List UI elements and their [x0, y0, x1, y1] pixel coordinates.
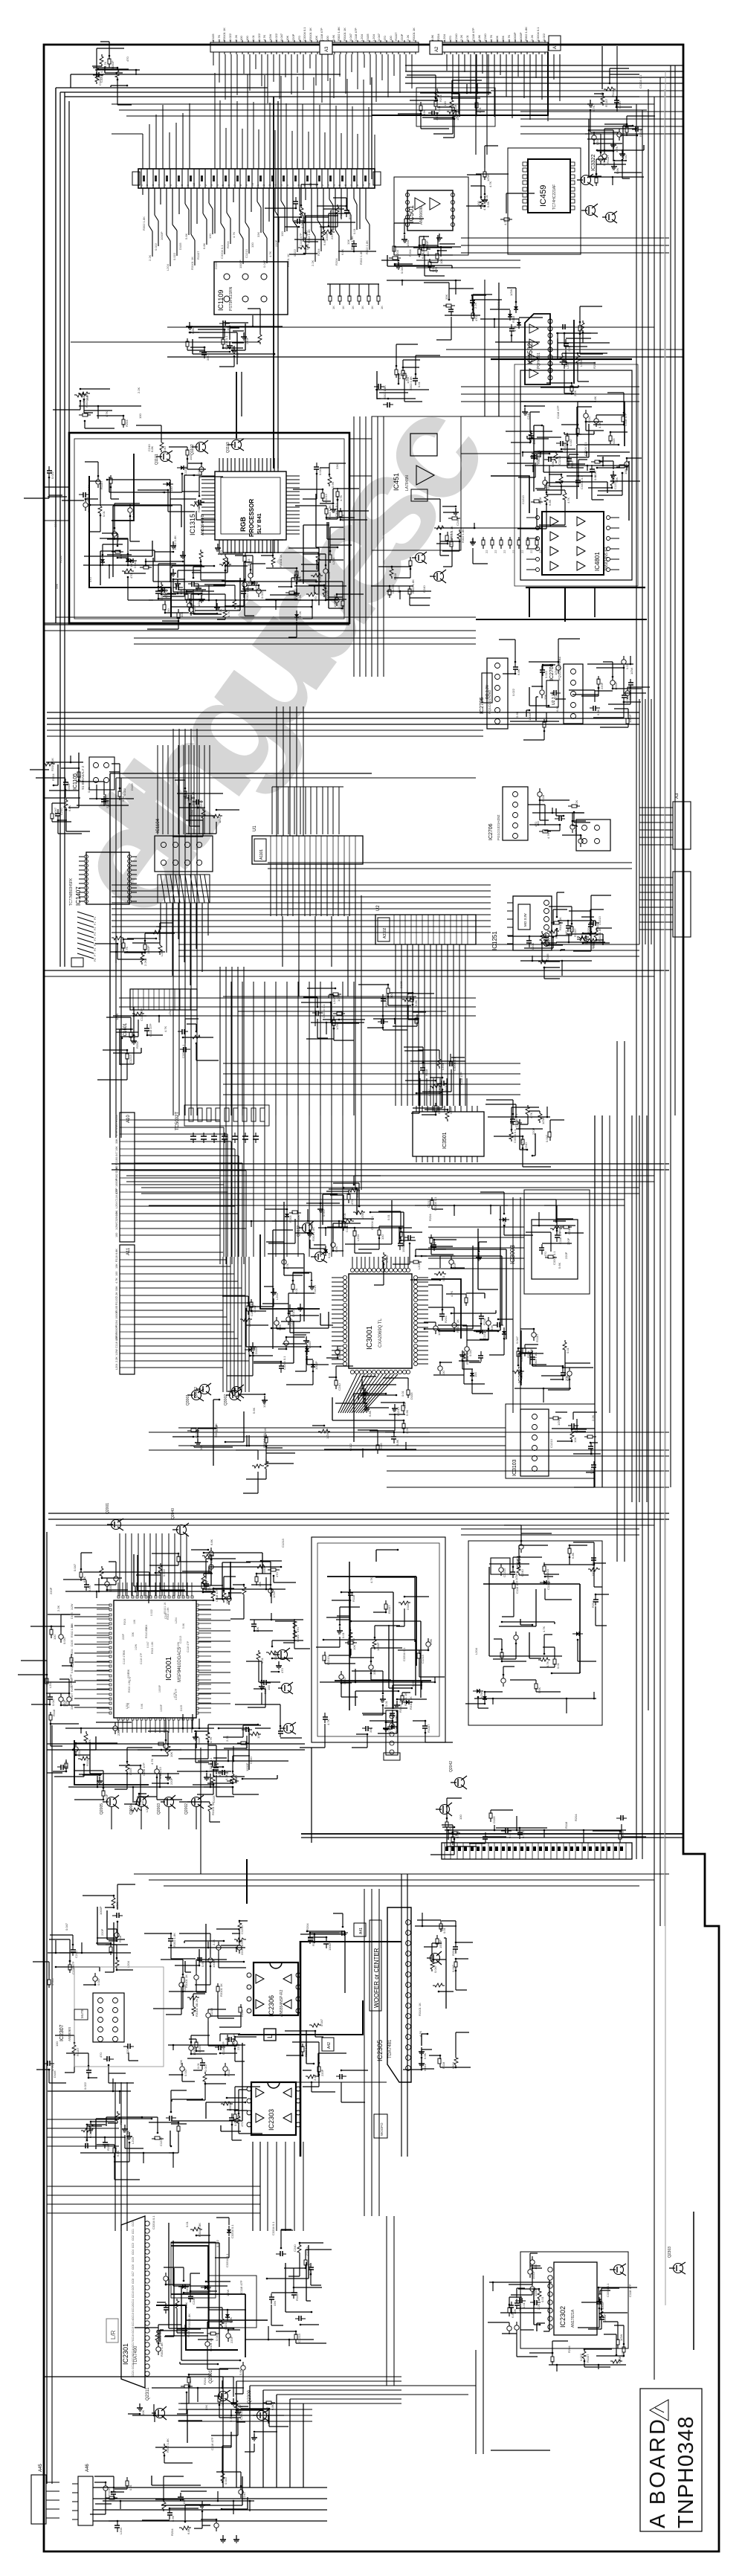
- svg-text:100: 100: [534, 2264, 538, 2270]
- svg-text:IC451: IC451: [393, 473, 400, 491]
- svg-text:R204: R204: [115, 1320, 118, 1327]
- svg-text:4.7K: 4.7K: [503, 219, 507, 225]
- svg-text:TDA7481: TDA7481: [388, 2039, 393, 2058]
- section box audio power: [520, 370, 632, 580]
- svg-text:C118 47P: C118 47P: [215, 1588, 219, 1602]
- svg-text:10K: 10K: [564, 1376, 568, 1381]
- connector J1 top strip: [210, 42, 419, 52]
- svg-text:1K: 1K: [361, 306, 364, 309]
- svg-text:1/2W: 1/2W: [115, 1349, 118, 1356]
- svg-text:R204: R204: [574, 1814, 578, 1821]
- svg-text:P4: P4: [94, 938, 97, 941]
- top center DIP IC3501: [413, 1112, 484, 1156]
- section box IC501: [394, 177, 468, 255]
- svg-text:L204: L204: [356, 1234, 360, 1241]
- svg-text:33K: 33K: [445, 294, 448, 300]
- svg-text:C240: C240: [526, 412, 530, 419]
- svg-text:L204: L204: [119, 2527, 123, 2534]
- svg-text:R204: R204: [125, 419, 129, 427]
- inner border step box: [693, 2212, 694, 2350]
- svg-text:4.7K: 4.7K: [150, 1758, 154, 1765]
- thick traces center box band5: [327, 1577, 431, 1681]
- svg-text:D105: D105: [366, 33, 370, 41]
- center horizontals band3: [119, 998, 476, 1016]
- svg-text:22: 22: [485, 550, 488, 553]
- vertical bus center page: [200, 1748, 201, 1874]
- svg-text:A BOARD: A BOARD: [646, 2417, 670, 2528]
- svg-text:C240: C240: [249, 1756, 253, 1764]
- svg-text:C118 47P: C118 47P: [222, 2041, 225, 2055]
- svg-text:CC15: CC15: [132, 2327, 135, 2334]
- svg-text:RGB: RGB: [239, 517, 247, 532]
- svg-text:6.8K: 6.8K: [571, 1552, 575, 1559]
- cluster around IC2001: [101, 1577, 103, 1580]
- svg-text:6.8K: 6.8K: [430, 34, 434, 41]
- svg-text:470: 470: [554, 695, 558, 701]
- svg-text:1/2W: 1/2W: [177, 1641, 180, 1648]
- IC459 multivibrator: [528, 159, 570, 213]
- svg-text:Q2042: Q2042: [449, 1761, 454, 1772]
- svg-text:R1107: R1107: [394, 32, 398, 41]
- svg-text:33K: 33K: [115, 1286, 118, 1291]
- svg-text:470: 470: [543, 1252, 547, 1257]
- svg-text:5.6K: 5.6K: [141, 1703, 143, 1709]
- svg-text:P3: P3: [94, 933, 97, 936]
- svg-text:C240: C240: [524, 1142, 528, 1150]
- svg-text:470: 470: [218, 1771, 222, 1777]
- svg-text:4.7K: 4.7K: [370, 1577, 373, 1583]
- svg-text:6.8K: 6.8K: [421, 252, 425, 259]
- svg-text:R204: R204: [51, 773, 55, 781]
- horizontal band5 upper: [47, 1744, 305, 1750]
- bold net IC2305: [238, 2000, 363, 2035]
- svg-text:R3101 1K: R3101 1K: [412, 28, 416, 41]
- svg-text:Q3002: Q3002: [224, 1394, 228, 1405]
- IC501 pre amp: [407, 190, 453, 231]
- svg-text:0.01: 0.01: [102, 510, 106, 517]
- svg-text:220P: 220P: [117, 1728, 120, 1736]
- svg-text:5.6K: 5.6K: [239, 2369, 242, 2375]
- svg-text:C3204 0.1: C3204 0.1: [115, 1210, 118, 1223]
- svg-text:4.7K: 4.7K: [115, 1130, 118, 1136]
- svg-text:4.7K: 4.7K: [209, 1736, 213, 1743]
- wires left of A44: [143, 103, 190, 169]
- svg-text:A3102: A3102: [383, 927, 387, 938]
- svg-text:R204: R204: [71, 1649, 74, 1655]
- wire comb below A1101: [271, 864, 355, 916]
- svg-text:R302 1.8K: R302 1.8K: [71, 1624, 74, 1638]
- transistors Q460 Q461: [581, 176, 591, 185]
- IC2303 audio amp: [251, 2082, 296, 2135]
- svg-text:IC1109: IC1109: [217, 290, 225, 311]
- svg-text:1/2W: 1/2W: [268, 33, 272, 41]
- svg-text:0.047: 0.047: [349, 33, 352, 41]
- band5 buses: [48, 1513, 669, 1519]
- svg-text:AN17821A: AN17821A: [571, 2309, 575, 2328]
- svg-text:R302 1.8K: R302 1.8K: [409, 376, 413, 390]
- svg-text:CC9: CC9: [132, 2285, 135, 2290]
- svg-text:MSP3410DGAC5: MSP3410DGAC5: [178, 1646, 182, 1682]
- MUTE box IC2307: [74, 2009, 88, 2020]
- svg-text:L204: L204: [474, 1647, 478, 1655]
- svg-text:IC2302: IC2302: [559, 2306, 567, 2328]
- transistors Q3808 Q3809: [416, 553, 425, 563]
- svg-text:6.8K: 6.8K: [429, 1638, 433, 1645]
- svg-text:D105: D105: [212, 1795, 216, 1803]
- svg-text:0.01: 0.01: [478, 106, 482, 113]
- transistor Q2310: [430, 1954, 440, 1963]
- svg-text:TC74HC221AF: TC74HC221AF: [552, 184, 557, 210]
- center bottom vertical bus: [220, 982, 354, 1115]
- svg-text:0.01: 0.01: [352, 228, 356, 234]
- cluster: [416, 88, 495, 126]
- svg-text:C240: C240: [483, 33, 487, 41]
- section frame left band6: [74, 1967, 164, 2067]
- svg-text:IC3103: IC3103: [512, 1459, 517, 1476]
- IC4801 audio amp: [542, 512, 604, 575]
- svg-text:33K: 33K: [55, 584, 59, 589]
- svg-text:R204: R204: [123, 1619, 126, 1625]
- svg-text:2.2K: 2.2K: [298, 611, 302, 617]
- svg-text:33K: 33K: [86, 396, 89, 401]
- svg-text:IC1601: IC1601: [123, 1023, 128, 1037]
- svg-text:33K: 33K: [206, 355, 210, 361]
- svg-text:IC501: IC501: [407, 205, 415, 223]
- svg-text:100: 100: [115, 1233, 118, 1237]
- svg-text:C3204 0.1: C3204 0.1: [322, 1004, 326, 1018]
- svg-text:R118: R118: [393, 573, 397, 580]
- svg-text:C1213: C1213: [129, 1054, 132, 1063]
- svg-text:P2: P2: [94, 927, 97, 930]
- svg-text:C3204 0.1: C3204 0.1: [449, 531, 453, 545]
- svg-text:R204: R204: [436, 33, 440, 41]
- svg-text:100: 100: [55, 2041, 59, 2047]
- svg-text:10K: 10K: [133, 1619, 136, 1624]
- svg-text:D105: D105: [492, 1816, 496, 1823]
- svg-text:R1107: R1107: [115, 1114, 118, 1122]
- svg-text:2.2K: 2.2K: [57, 1605, 60, 1611]
- svg-text:C240: C240: [147, 444, 151, 451]
- svg-text:4.7K: 4.7K: [227, 611, 230, 617]
- cap row below resistor array: [193, 1133, 256, 1143]
- svg-text:0.01: 0.01: [200, 589, 204, 596]
- svg-text:LA7845N: LA7845N: [405, 475, 410, 491]
- svg-text:MUTE: MUTE: [80, 2009, 84, 2018]
- svg-text:2.2K: 2.2K: [573, 390, 577, 396]
- svg-text:100: 100: [477, 201, 480, 206]
- svg-text:R204: R204: [317, 248, 320, 256]
- svg-text:1/2W: 1/2W: [71, 1603, 74, 1610]
- svg-text:R3101 1K: R3101 1K: [384, 994, 388, 1007]
- svg-text:L204: L204: [332, 996, 336, 1004]
- wire: [71, 74, 341, 88]
- right margin vertical buses: [636, 65, 675, 2380]
- bold trace band4 IC3001: [260, 1234, 461, 1339]
- svg-text:0.047: 0.047: [146, 1641, 149, 1648]
- svg-text:C3204 0.1: C3204 0.1: [606, 2283, 610, 2297]
- svg-text:C3204 0.1: C3204 0.1: [402, 1647, 406, 1661]
- svg-text:C118 47P: C118 47P: [187, 1640, 190, 1652]
- comb above IC1104: [158, 745, 210, 834]
- svg-text:100: 100: [326, 36, 329, 41]
- svg-text:CC6: CC6: [132, 2264, 135, 2270]
- svg-text:1000P: 1000P: [328, 1942, 332, 1951]
- svg-text:1/2W: 1/2W: [509, 289, 513, 296]
- svg-text:C1213: C1213: [245, 248, 248, 258]
- svg-text:1000P: 1000P: [115, 1311, 118, 1319]
- bold net at IC4502: [491, 358, 632, 360]
- bold feed from A1 connector: [372, 52, 548, 115]
- svg-text:0.047: 0.047: [97, 1977, 100, 1986]
- long horizontals band4 top: [149, 1200, 625, 1205]
- svg-text:C240: C240: [338, 1383, 341, 1391]
- svg-text:1000P: 1000P: [528, 712, 532, 721]
- svg-text:470: 470: [350, 1200, 354, 1205]
- connector A10 left edge: [120, 1112, 135, 1242]
- svg-text:C1213: C1213: [281, 1538, 285, 1548]
- svg-text:0.047: 0.047: [71, 1658, 74, 1664]
- svg-text:P1: P1: [94, 922, 97, 925]
- svg-text:D105: D105: [130, 783, 134, 790]
- svg-text:0.047: 0.047: [515, 1336, 519, 1344]
- woofer output box: [374, 2114, 387, 2138]
- svg-text:100: 100: [564, 930, 568, 936]
- connector A41 box: [354, 1923, 366, 1936]
- svg-text:R204: R204: [59, 556, 62, 563]
- svg-text:R204: R204: [567, 2345, 571, 2353]
- svg-text:PROCESSOR: PROCESSOR: [248, 499, 255, 537]
- svg-text:4.7K: 4.7K: [268, 251, 272, 257]
- svg-text:33K: 33K: [71, 1704, 74, 1710]
- svg-text:10K: 10K: [495, 36, 499, 41]
- svg-text:1/2W: 1/2W: [337, 994, 341, 1002]
- svg-text:C118 47P: C118 47P: [556, 405, 560, 419]
- svg-text:TNPH0348: TNPH0348: [674, 2416, 698, 2528]
- svg-text:22: 22: [503, 550, 506, 553]
- svg-text:0.022: 0.022: [293, 248, 297, 257]
- transistor Q2309: [257, 2411, 267, 2421]
- IC2001 right pin stubs: [199, 1610, 230, 1704]
- svg-text:0.047: 0.047: [545, 1134, 549, 1142]
- svg-text:CC7: CC7: [132, 2271, 135, 2276]
- svg-text:0.047: 0.047: [73, 1563, 77, 1571]
- svg-text:C1213: C1213: [421, 1654, 425, 1664]
- RGB cluster parts: [100, 559, 105, 562]
- svg-text:R204: R204: [439, 94, 442, 102]
- svg-text:2.2K: 2.2K: [115, 1292, 118, 1298]
- IC4502 buffer amp: [525, 314, 550, 384]
- svg-text:L204: L204: [417, 1262, 421, 1269]
- svg-text:1000P: 1000P: [158, 1684, 161, 1693]
- svg-text:0.047: 0.047: [115, 1122, 118, 1130]
- svg-text:470: 470: [448, 36, 452, 41]
- svg-text:Q3132: Q3132: [297, 1226, 301, 1237]
- svg-text:0.01: 0.01: [442, 1275, 445, 1281]
- wires to edge connectors: [639, 808, 668, 930]
- svg-text:0.01: 0.01: [196, 2062, 200, 2069]
- svg-text:1000P: 1000P: [314, 1361, 318, 1370]
- svg-text:100: 100: [443, 101, 447, 106]
- transistor Q2311: [155, 2409, 165, 2418]
- svg-text:R302 1.8K: R302 1.8K: [328, 505, 332, 519]
- svg-text:IC3001: IC3001: [366, 1325, 374, 1350]
- svg-text:33K: 33K: [422, 110, 426, 115]
- svg-text:R3101 1K: R3101 1K: [279, 554, 283, 567]
- svg-text:4.7K: 4.7K: [51, 2064, 54, 2071]
- svg-text:4.7K: 4.7K: [119, 938, 123, 945]
- transistor Q2308: [606, 213, 616, 222]
- svg-text:5.6K: 5.6K: [184, 233, 188, 239]
- svg-text:Q1102: Q1102: [190, 444, 195, 455]
- svg-text:470: 470: [129, 573, 133, 579]
- svg-text:R3101 1K: R3101 1K: [145, 1626, 148, 1638]
- gray bus right margin: [664, 89, 665, 1926]
- svg-text:R1107: R1107: [535, 1333, 539, 1342]
- cluster small parts top-left: [108, 59, 111, 64]
- svg-text:R1107: R1107: [604, 98, 608, 107]
- svg-text:2.2K: 2.2K: [137, 387, 141, 393]
- svg-text:A42: A42: [327, 2042, 332, 2049]
- svg-text:0.022: 0.022: [257, 33, 261, 41]
- svg-text:A45: A45: [39, 2464, 43, 2472]
- transistors Q3001 Q3002b: [192, 1391, 201, 1400]
- svg-text:D105: D105: [214, 262, 218, 269]
- bottom connector bar band5: [442, 1843, 632, 1859]
- svg-text:0.01: 0.01: [417, 381, 421, 387]
- svg-text:CC4: CC4: [132, 2250, 135, 2255]
- svg-text:R302 1.8K: R302 1.8K: [172, 1933, 176, 1947]
- comb above IC2001: [120, 1533, 187, 1596]
- svg-text:100: 100: [251, 242, 254, 248]
- svg-text:5.6K: 5.6K: [335, 1246, 338, 1252]
- svg-text:10K: 10K: [439, 259, 443, 264]
- svg-text:4.7K: 4.7K: [339, 495, 343, 501]
- svg-text:C1213: C1213: [503, 1568, 506, 1577]
- svg-text:R302 1.8K: R302 1.8K: [142, 216, 146, 231]
- svg-text:100: 100: [239, 36, 243, 41]
- svg-text:0.022: 0.022: [178, 1666, 181, 1672]
- svg-text:L204: L204: [442, 33, 446, 41]
- svg-text:C3204 0.1: C3204 0.1: [230, 2224, 234, 2238]
- svg-text:CC16: CC16: [132, 2334, 135, 2341]
- svg-text:4.7K: 4.7K: [262, 34, 266, 41]
- svg-text:100: 100: [115, 1272, 118, 1276]
- svg-text:470: 470: [383, 36, 387, 41]
- svg-text:5.6K: 5.6K: [405, 1409, 409, 1416]
- svg-text:IC2307: IC2307: [59, 2024, 65, 2041]
- svg-text:470: 470: [275, 1572, 279, 1577]
- svg-text:0.022: 0.022: [544, 670, 548, 678]
- svg-text:100: 100: [53, 1635, 57, 1640]
- svg-text:1/2W: 1/2W: [480, 1691, 483, 1698]
- svg-text:100: 100: [208, 234, 212, 239]
- svg-text:R204: R204: [226, 241, 230, 248]
- svg-text:R3101 1K: R3101 1K: [222, 28, 226, 41]
- svg-text:C240: C240: [133, 561, 137, 568]
- svg-text:220P: 220P: [320, 2069, 324, 2076]
- svg-text:MO 3.3V: MO 3.3V: [523, 913, 527, 927]
- svg-text:D105: D105: [53, 2070, 57, 2078]
- svg-text:R204: R204: [135, 1041, 139, 1049]
- svg-text:10K: 10K: [256, 1627, 259, 1632]
- svg-text:D105: D105: [178, 242, 182, 250]
- svg-text:4.7K: 4.7K: [300, 222, 304, 228]
- svg-text:10K: 10K: [352, 1645, 356, 1650]
- svg-text:2.2K: 2.2K: [212, 1939, 216, 1945]
- svg-text:R302 1.8K: R302 1.8K: [524, 27, 528, 41]
- svg-text:R3101 1K: R3101 1K: [195, 2003, 199, 2017]
- svg-text:A1: A1: [553, 43, 558, 49]
- section rects band7 center: [171, 2242, 216, 2298]
- svg-text:L204: L204: [441, 1063, 445, 1070]
- svg-text:2.2K: 2.2K: [148, 254, 152, 261]
- svg-text:10K: 10K: [314, 36, 318, 41]
- svg-text:220P: 220P: [105, 1794, 109, 1801]
- transistor Q2301: [219, 2392, 228, 2401]
- svg-text:2.2K: 2.2K: [143, 959, 147, 966]
- cluster: [446, 304, 451, 307]
- svg-text:1000P: 1000P: [160, 1704, 163, 1712]
- svg-text:33K: 33K: [335, 464, 339, 469]
- svg-text:2.2K: 2.2K: [236, 604, 240, 611]
- svg-text:100: 100: [71, 1678, 74, 1683]
- svg-text:1000P: 1000P: [439, 1939, 442, 1948]
- svg-text:0.022: 0.022: [512, 688, 515, 696]
- band4 vertical buses right: [595, 1115, 602, 1487]
- bottom left wires: [239, 2490, 243, 2494]
- section box IC459: [508, 148, 581, 254]
- svg-text:R1107: R1107: [71, 1693, 74, 1701]
- svg-text:C1213: C1213: [549, 1438, 553, 1448]
- connector A45 bottom left: [31, 2475, 46, 2524]
- svg-text:C118 47P: C118 47P: [546, 1577, 550, 1590]
- svg-text:R3101 1K: R3101 1K: [219, 1983, 223, 1997]
- svg-text:0.047: 0.047: [569, 438, 572, 446]
- svg-text:0.022: 0.022: [260, 590, 264, 599]
- frame right band6: [364, 1889, 379, 2216]
- svg-text:10K: 10K: [285, 36, 289, 41]
- svg-text:0.01: 0.01: [387, 1214, 390, 1220]
- svg-text:P8: P8: [94, 959, 97, 962]
- svg-text:5.6K: 5.6K: [486, 201, 490, 207]
- svg-text:2.2K: 2.2K: [405, 1427, 409, 1434]
- svg-text:4.7K: 4.7K: [115, 1278, 118, 1284]
- svg-text:0.047: 0.047: [184, 2068, 187, 2076]
- vertical bundle center band3-4: [254, 982, 343, 1257]
- svg-text:2.2K: 2.2K: [431, 265, 435, 272]
- svg-text:0.022: 0.022: [172, 252, 176, 260]
- svg-text:6.8K: 6.8K: [414, 999, 418, 1006]
- svg-text:6.8K: 6.8K: [116, 2150, 120, 2157]
- svg-text:220P: 220P: [100, 1928, 104, 1936]
- svg-text:C3204 0.1: C3204 0.1: [639, 74, 642, 88]
- IC3001 QFP video chroma: [349, 1274, 412, 1368]
- bottom transistor row Q2002-Q2005: [107, 1797, 117, 1807]
- svg-text:10K: 10K: [333, 212, 337, 217]
- svg-text:IC1104: IC1104: [156, 818, 161, 833]
- svg-text:100: 100: [459, 1815, 462, 1820]
- svg-text:100: 100: [267, 1685, 271, 1690]
- svg-text:100: 100: [245, 36, 249, 41]
- svg-text:1000P: 1000P: [513, 32, 517, 41]
- right transistor column Q2006 Q2007 Q2008: [278, 1650, 288, 1660]
- svg-text:C1213: C1213: [521, 495, 525, 504]
- IC1109 video amplifier: [214, 262, 288, 315]
- svg-text:0.047: 0.047: [624, 153, 628, 161]
- svg-text:WOOFO: WOOFO: [380, 2122, 384, 2136]
- svg-text:1/2W: 1/2W: [254, 583, 258, 590]
- svg-text:4.7K: 4.7K: [285, 1263, 289, 1269]
